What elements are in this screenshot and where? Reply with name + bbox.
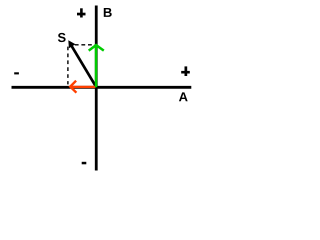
label A bbox=[179, 92, 188, 101]
dashed projection line horizontal bbox=[75, 44, 96, 46]
label + right (plus sign) bbox=[181, 66, 190, 76]
label S bbox=[58, 33, 66, 42]
vector S arrowhead bbox=[68, 40, 75, 48]
vector S bbox=[70, 44, 96, 87]
label + top (plus sign) bbox=[77, 8, 86, 17]
green component arrow (B axis) bbox=[89, 45, 104, 87]
axis A (horizontal) bbox=[12, 86, 192, 89]
dashed projection line vertical bbox=[67, 47, 69, 85]
red component arrow (A axis) bbox=[70, 81, 95, 93]
label B bbox=[104, 8, 112, 17]
label - left (minus sign) bbox=[14, 72, 19, 74]
label - bottom (minus sign) bbox=[82, 162, 87, 165]
axis B (vertical) bbox=[95, 6, 98, 171]
